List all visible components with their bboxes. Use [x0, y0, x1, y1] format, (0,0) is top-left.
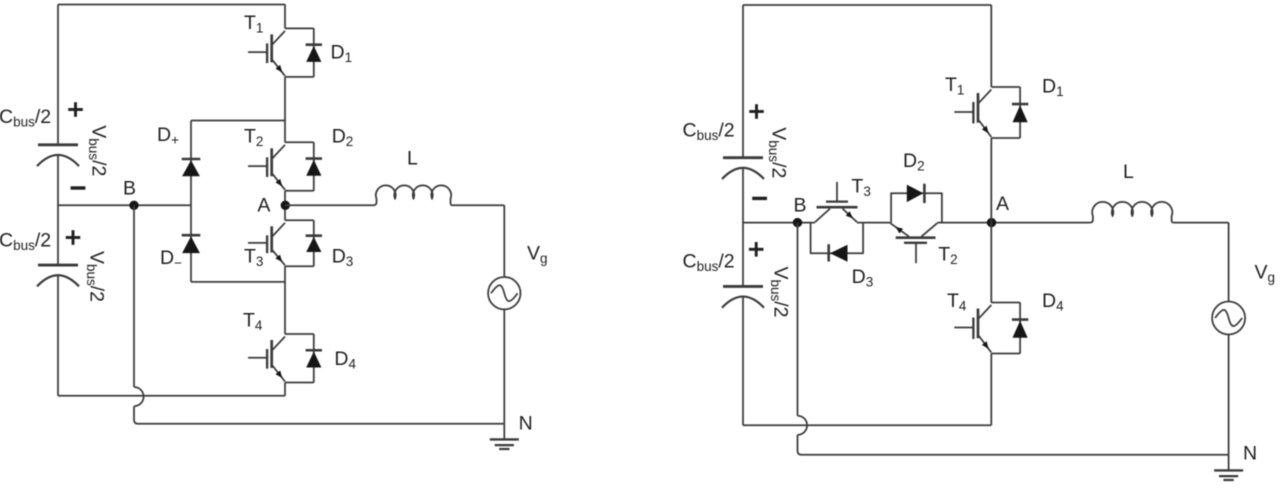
svg-text:A: A [257, 195, 270, 217]
svg-text:A: A [996, 193, 1009, 215]
svg-text:B: B [123, 178, 136, 200]
svg-text:B: B [793, 195, 806, 217]
svg-text:L: L [1123, 161, 1134, 183]
svg-text:N: N [519, 413, 533, 435]
svg-text:L: L [407, 148, 418, 170]
svg-text:N: N [1243, 443, 1257, 465]
